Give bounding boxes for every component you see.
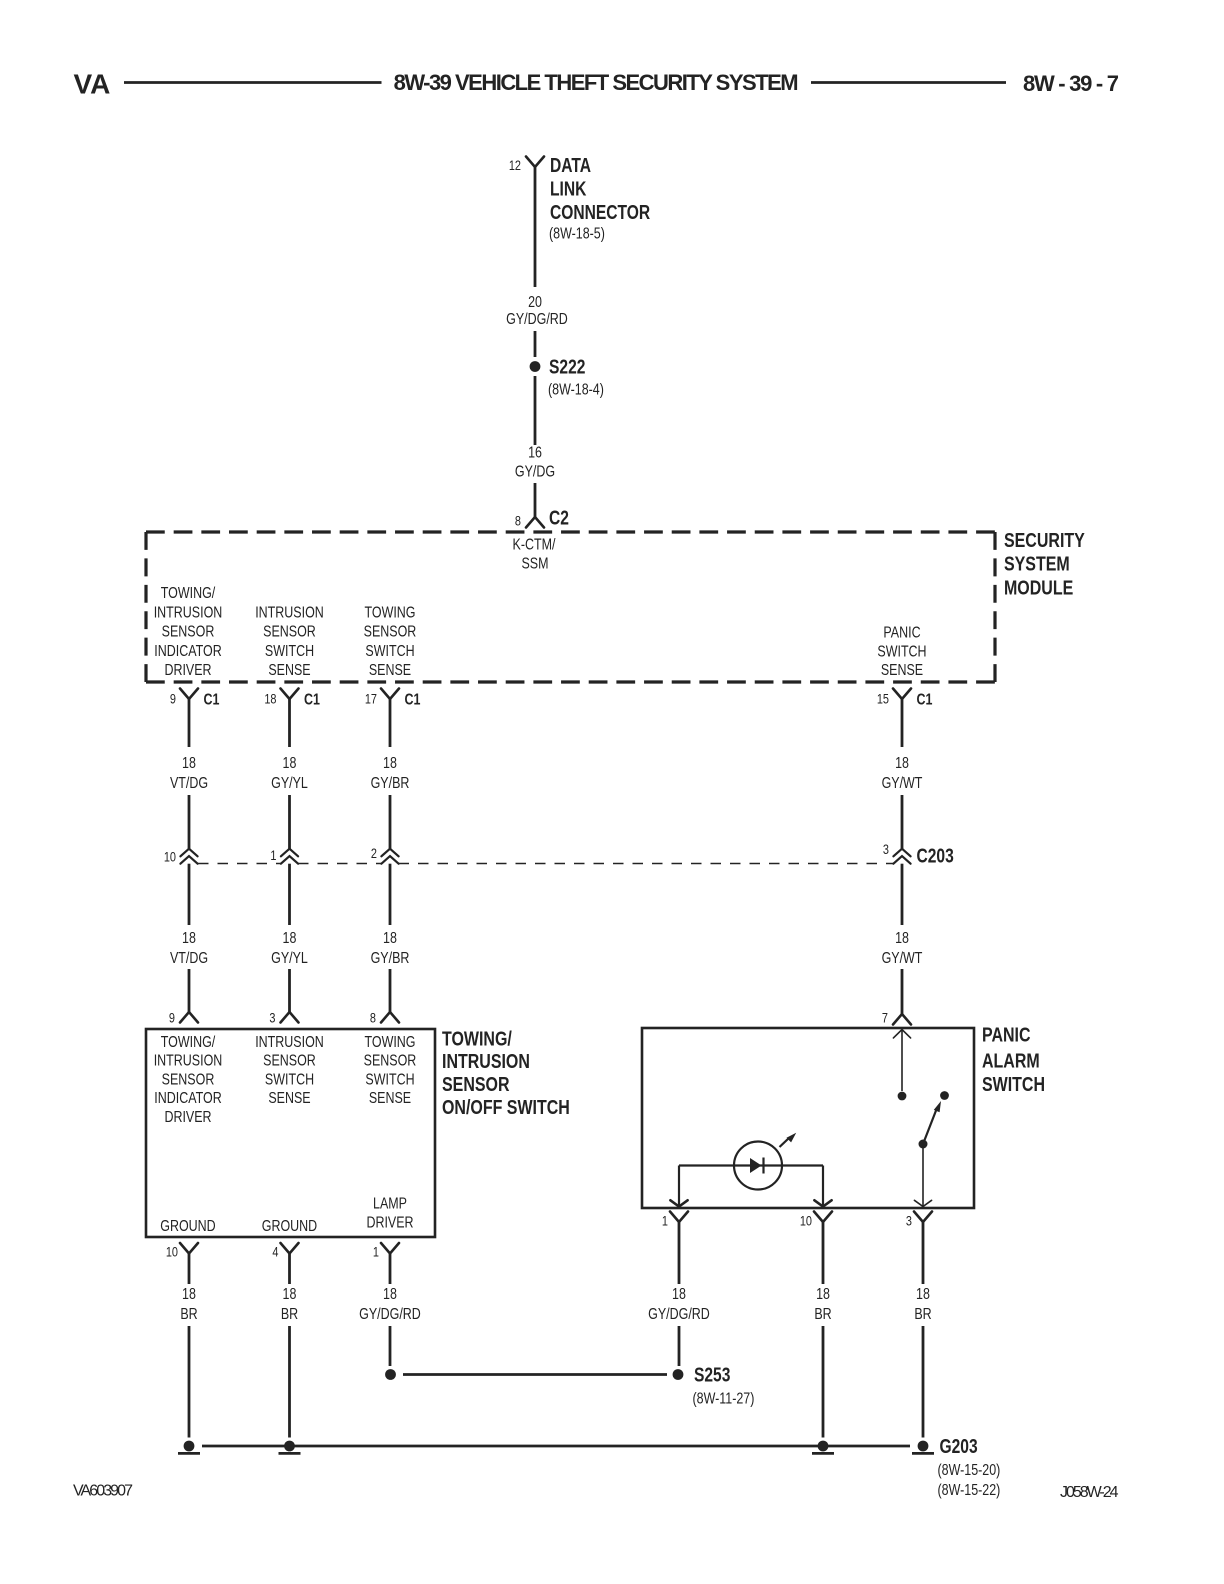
wire C1 pin 17 stem	[389, 699, 392, 747]
ground node 3	[812, 1441, 834, 1454]
svg-text:TOWING/: TOWING/	[161, 1034, 215, 1052]
wire pin 1 stem	[389, 1254, 392, 1285]
svg-text:8W - 39 - 7: 8W - 39 - 7	[1023, 71, 1119, 96]
connector pin 1 below on/off switch	[373, 1243, 399, 1260]
wire into on/off switch pin 3	[288, 969, 291, 1012]
wire C1 pin 15 stem	[901, 699, 904, 747]
wire label 18 GY/YL lower	[271, 930, 308, 968]
svg-text:18: 18	[283, 1286, 297, 1304]
connector C2 pin 8	[515, 507, 569, 529]
wire C203 to VT/DG label	[188, 864, 191, 925]
svg-text:GY/DG/RD: GY/DG/RD	[648, 1306, 710, 1324]
svg-text:VT/DG: VT/DG	[170, 775, 208, 793]
svg-text:18: 18	[182, 755, 196, 773]
svg-text:SENSE: SENSE	[881, 662, 923, 680]
svg-text:(8W-15-20): (8W-15-20)	[937, 1462, 1000, 1480]
connector pin 3 below panic switch	[906, 1212, 932, 1229]
svg-text:LAMP: LAMP	[373, 1195, 407, 1213]
connector pin 4 below on/off switch	[272, 1243, 298, 1260]
svg-text:C1: C1	[916, 691, 932, 709]
connector half pin 3 at switch box	[269, 1010, 298, 1026]
svg-text:9: 9	[170, 691, 176, 707]
svg-text:18: 18	[895, 930, 909, 948]
wire GY/BR to C203	[389, 795, 392, 849]
wire riser pin 10 with arrow	[814, 1166, 831, 1207]
wire into on/off switch pin 8	[389, 969, 392, 1012]
svg-text:SENSE: SENSE	[268, 1090, 310, 1108]
connector half pin 8 at switch box	[370, 1010, 399, 1026]
wire label 18 VT/DG lower	[170, 930, 208, 968]
splice S253 node right	[673, 1369, 684, 1380]
connector half pin 7 at panic box	[882, 1010, 911, 1026]
wire into on/off switch pin 9	[188, 969, 191, 1012]
svg-text:16: 16	[528, 444, 542, 462]
connector C1 pin 15	[877, 689, 933, 709]
svg-text:TOWING/: TOWING/	[442, 1026, 512, 1049]
module pin label PANIC SWITCH SENSE	[877, 624, 926, 680]
wire DLC pin12 to S222 upper	[534, 167, 537, 287]
svg-text:LINK: LINK	[550, 178, 586, 200]
switch blade pivot node	[919, 1140, 928, 1149]
label PANIC ALARM SWITCH	[982, 1023, 1045, 1096]
svg-text:C1: C1	[204, 691, 220, 709]
wire C1 pin 9 stem	[188, 699, 191, 747]
wire pin 10 stem	[822, 1222, 825, 1284]
svg-text:INTRUSION: INTRUSION	[154, 604, 223, 622]
svg-text:GY/DG: GY/DG	[515, 463, 555, 481]
label TOWING/INTRUSION SENSOR ON/OFF SWITCH	[442, 1026, 570, 1118]
wire GY/WT to C203	[901, 795, 904, 849]
svg-text:3: 3	[906, 1213, 912, 1229]
svg-text:SENSOR: SENSOR	[364, 1052, 417, 1070]
wire pin 1 stem	[678, 1222, 681, 1284]
svg-text:SWITCH: SWITCH	[265, 1071, 314, 1089]
wire S222 to label 16	[534, 376, 537, 445]
wire label 18 GY/BR lower	[371, 930, 410, 968]
wire to connector C2	[534, 483, 537, 517]
connector C1 pin 9	[170, 689, 220, 709]
wire panic pin1 to S253	[678, 1326, 681, 1366]
header rule left	[124, 81, 382, 84]
footer drawing number J058W-24	[1060, 1484, 1119, 1501]
switch pin label TOWING SENSOR SWITCH SENSE	[364, 1034, 417, 1108]
module pin label TOWING/INTRUSION SENSOR INDICATOR DRIVER	[154, 585, 223, 680]
svg-text:SWITCH: SWITCH	[877, 643, 926, 661]
svg-text:VA: VA	[74, 68, 111, 99]
svg-text:(8W-11-27): (8W-11-27)	[692, 1390, 754, 1408]
wire VT/DG to C203	[188, 795, 191, 849]
wire C1 pin 18 stem	[288, 699, 291, 747]
svg-text:TOWING: TOWING	[364, 604, 415, 622]
svg-text:INDICATOR: INDICATOR	[154, 1090, 221, 1108]
svg-text:SENSE: SENSE	[369, 1090, 411, 1108]
svg-text:GY/DG/RD: GY/DG/RD	[506, 311, 568, 329]
connector C203 pin 1	[270, 848, 298, 864]
svg-text:(8W-18-5): (8W-18-5)	[549, 225, 605, 243]
svg-text:18: 18	[264, 691, 276, 707]
svg-text:15: 15	[877, 691, 889, 707]
switch pin label INTRUSION SENSOR SWITCH SENSE	[255, 1034, 324, 1108]
svg-text:G203: G203	[940, 1435, 978, 1457]
svg-text:18: 18	[383, 930, 397, 948]
svg-text:SSM: SSM	[521, 555, 548, 573]
wire label 18 BR bottom	[914, 1286, 931, 1324]
svg-text:K-CTM/: K-CTM/	[513, 536, 556, 554]
svg-text:18: 18	[283, 755, 297, 773]
switch contact node (common)	[898, 1092, 907, 1101]
label G203 (8W-15-20) (8W-15-22)	[937, 1435, 1000, 1499]
svg-text:GROUND: GROUND	[262, 1218, 317, 1236]
svg-text:ON/OFF SWITCH: ON/OFF SWITCH	[442, 1095, 570, 1118]
wire C203 to GY/YL label	[288, 864, 291, 925]
wire label 18 GY/DG/RD bottom	[648, 1286, 710, 1324]
svg-text:MODULE: MODULE	[1004, 575, 1073, 598]
connector half pin 9 at switch box	[169, 1010, 198, 1026]
header rule right	[811, 81, 1006, 84]
svg-text:10: 10	[166, 1244, 178, 1260]
wire panic pin3 to ground	[922, 1326, 925, 1438]
svg-text:PANIC: PANIC	[883, 624, 920, 642]
wire GY/YL to C203	[288, 795, 291, 849]
svg-text:4: 4	[272, 1244, 278, 1260]
svg-text:CONNECTOR: CONNECTOR	[550, 201, 650, 223]
svg-text:10: 10	[800, 1213, 812, 1229]
svg-text:ALARM: ALARM	[982, 1049, 1040, 1072]
module pin label INTRUSION SENSOR SWITCH SENSE	[255, 604, 324, 680]
connector C203 pin 3	[883, 842, 911, 864]
wire ground branch left	[188, 1326, 191, 1438]
lamp actuate arrow	[780, 1133, 797, 1147]
connector C1 pin 17	[365, 689, 421, 709]
svg-text:BR: BR	[914, 1306, 931, 1324]
module pin label TOWING SENSOR SWITCH SENSE	[364, 604, 417, 680]
label S253 (8W-11-27)	[692, 1364, 754, 1408]
wire label 18 BR bottom	[180, 1286, 197, 1324]
svg-text:SENSOR: SENSOR	[263, 623, 316, 641]
connector pin 10 below on/off switch	[166, 1243, 198, 1260]
page header VA	[74, 68, 111, 99]
svg-text:GY/WT: GY/WT	[882, 950, 923, 968]
connector C203 alignment dashed line	[198, 863, 893, 865]
svg-text:J058W-24: J058W-24	[1060, 1484, 1119, 1501]
ground node 2	[279, 1441, 301, 1454]
svg-text:C2: C2	[549, 507, 569, 529]
switch blade with arrowhead	[923, 1101, 941, 1144]
svg-text:PANIC: PANIC	[982, 1023, 1031, 1046]
svg-text:VA603907: VA603907	[73, 1483, 133, 1500]
svg-text:18: 18	[916, 1286, 930, 1304]
wire lamp driver to S253	[389, 1326, 392, 1366]
wire pin 10 stem	[188, 1254, 191, 1285]
label DATA LINK CONNECTOR (8W-18-5)	[549, 154, 650, 243]
svg-text:12: 12	[509, 158, 521, 174]
wire label 18 GY/WT	[882, 755, 923, 793]
svg-text:GY/DG/RD: GY/DG/RD	[359, 1306, 421, 1324]
svg-text:C203: C203	[916, 845, 953, 867]
svg-text:18: 18	[383, 1286, 397, 1304]
lamp diode symbol	[750, 1158, 764, 1174]
svg-text:BR: BR	[281, 1306, 298, 1324]
switch TOWING/INTRUSION SENSOR ON/OFF SWITCH box	[146, 1029, 435, 1237]
svg-text:BR: BR	[180, 1306, 197, 1324]
svg-text:BR: BR	[814, 1306, 831, 1324]
svg-text:S253: S253	[694, 1364, 730, 1386]
svg-text:GY/WT: GY/WT	[882, 775, 923, 793]
ground G203 bus	[202, 1445, 910, 1448]
connector DATA LINK CONNECTOR pin 12	[509, 157, 544, 174]
wire C203 to GY/BR label	[389, 864, 392, 925]
wire label 18 BR bottom	[814, 1286, 831, 1324]
svg-text:18: 18	[383, 755, 397, 773]
header title	[394, 70, 799, 95]
connector pin 10 below panic switch	[800, 1212, 832, 1229]
svg-text:10: 10	[164, 849, 176, 865]
svg-text:(8W-15-22): (8W-15-22)	[937, 1482, 1000, 1500]
svg-text:DRIVER: DRIVER	[366, 1214, 413, 1232]
svg-text:SENSOR: SENSOR	[263, 1052, 316, 1070]
wire C203 to GY/WT label	[901, 864, 904, 925]
wire label 18 BR bottom	[281, 1286, 298, 1324]
svg-text:(8W-18-4): (8W-18-4)	[548, 381, 604, 399]
splice S253 node left	[385, 1369, 396, 1380]
svg-text:SENSOR: SENSOR	[162, 1071, 215, 1089]
switch pin label LAMP DRIVER	[366, 1195, 413, 1232]
svg-text:SENSOR: SENSOR	[162, 623, 215, 641]
wire riser pin 1 with arrow	[670, 1166, 687, 1207]
svg-text:1: 1	[662, 1213, 668, 1229]
svg-text:GY/BR: GY/BR	[371, 950, 410, 968]
wire label 18 VT/DG	[170, 755, 208, 793]
svg-text:SENSE: SENSE	[268, 662, 310, 680]
wire panic pin 7 internal with arrow	[893, 1030, 910, 1092]
svg-text:SWITCH: SWITCH	[982, 1072, 1045, 1095]
svg-text:GY/BR: GY/BR	[371, 775, 410, 793]
ground node 4	[912, 1441, 934, 1454]
svg-text:SWITCH: SWITCH	[265, 643, 314, 661]
net name K-CTM/SSM	[513, 536, 556, 573]
wire ground branch middle	[288, 1326, 291, 1438]
footer sheet code VA603907	[73, 1483, 133, 1500]
svg-text:18: 18	[816, 1286, 830, 1304]
wire into splice S222	[534, 331, 537, 357]
module SECURITY SYSTEM MODULE dashed outline	[146, 532, 995, 682]
svg-text:SYSTEM: SYSTEM	[1004, 552, 1070, 575]
svg-text:8W-39 VEHICLE THEFT SECURITY S: 8W-39 VEHICLE THEFT SECURITY SYSTEM	[394, 70, 799, 95]
wire panic pin10 to ground	[822, 1326, 825, 1438]
svg-text:INTRUSION: INTRUSION	[442, 1049, 530, 1072]
svg-text:SWITCH: SWITCH	[365, 643, 414, 661]
wire pin 4 stem	[288, 1254, 291, 1285]
svg-text:TOWING/: TOWING/	[161, 585, 215, 603]
wire blade pivot to pin 3 with arrow	[914, 1144, 931, 1207]
svg-text:GROUND: GROUND	[160, 1218, 215, 1236]
lamp circle (indicator)	[734, 1142, 782, 1190]
wire label 18 GY/YL	[271, 755, 308, 793]
wire label 18 GY/WT lower	[882, 930, 923, 968]
svg-text:9: 9	[169, 1010, 175, 1026]
switch pin label GROUND (middle)	[262, 1218, 317, 1236]
svg-text:18: 18	[182, 930, 196, 948]
svg-text:SECURITY: SECURITY	[1004, 528, 1085, 551]
svg-text:18: 18	[283, 930, 297, 948]
svg-text:2: 2	[371, 846, 377, 862]
wire pin 3 stem	[922, 1222, 925, 1284]
wire lamp horizontal pin1 to pin10	[679, 1164, 823, 1166]
svg-text:TOWING: TOWING	[364, 1034, 415, 1052]
svg-text:SENSOR: SENSOR	[364, 623, 417, 641]
svg-text:8: 8	[515, 513, 521, 529]
svg-text:INTRUSION: INTRUSION	[154, 1052, 223, 1070]
switch PANIC ALARM SWITCH box	[642, 1028, 974, 1208]
wire label 20 GY/DG/RD	[506, 294, 568, 329]
svg-text:VT/DG: VT/DG	[170, 950, 208, 968]
svg-text:1: 1	[270, 848, 276, 864]
svg-text:1: 1	[373, 1244, 379, 1260]
svg-text:18: 18	[672, 1286, 686, 1304]
connector C203 pin 10	[164, 849, 198, 865]
label SECURITY SYSTEM MODULE	[1004, 528, 1085, 599]
svg-text:DRIVER: DRIVER	[164, 1108, 211, 1126]
connector pin 1 below panic switch	[662, 1212, 688, 1229]
svg-text:DATA: DATA	[550, 154, 591, 176]
connector C1 pin 18	[264, 689, 320, 709]
svg-text:SENSOR: SENSOR	[442, 1072, 510, 1095]
splice S222	[530, 356, 604, 399]
page number 8W - 39 - 7	[1023, 71, 1119, 96]
svg-text:20: 20	[528, 294, 542, 312]
svg-text:7: 7	[882, 1010, 888, 1026]
svg-text:C1: C1	[304, 691, 320, 709]
wire label 16 GY/DG	[515, 444, 555, 481]
wire S253 bus	[403, 1373, 667, 1376]
svg-text:INTRUSION: INTRUSION	[255, 604, 324, 622]
wire into panic switch pin 7	[901, 969, 904, 1014]
svg-text:S222: S222	[549, 356, 585, 378]
wire label 18 GY/DG/RD bottom	[359, 1286, 421, 1324]
svg-text:DRIVER: DRIVER	[164, 662, 211, 680]
switch pin label GROUND (left)	[160, 1218, 215, 1236]
svg-text:8: 8	[370, 1010, 376, 1026]
svg-text:SENSE: SENSE	[369, 662, 411, 680]
connector C203 pin 2	[371, 846, 399, 864]
switch pin label TOWING/INTRUSION SENSOR INDICATOR DRIVER	[154, 1034, 223, 1127]
svg-text:GY/YL: GY/YL	[271, 950, 308, 968]
svg-text:INDICATOR: INDICATOR	[154, 643, 221, 661]
svg-text:C1: C1	[405, 691, 421, 709]
wire label 18 GY/BR	[371, 755, 410, 793]
svg-text:17: 17	[365, 691, 377, 707]
svg-text:18: 18	[182, 1286, 196, 1304]
svg-text:18: 18	[895, 755, 909, 773]
svg-text:SWITCH: SWITCH	[365, 1071, 414, 1089]
ground node 1	[178, 1441, 200, 1454]
svg-text:3: 3	[883, 842, 889, 858]
label C203	[916, 845, 953, 867]
svg-text:INTRUSION: INTRUSION	[255, 1034, 324, 1052]
svg-text:3: 3	[269, 1010, 275, 1026]
switch contact node (throw)	[940, 1091, 949, 1100]
svg-text:GY/YL: GY/YL	[271, 775, 308, 793]
